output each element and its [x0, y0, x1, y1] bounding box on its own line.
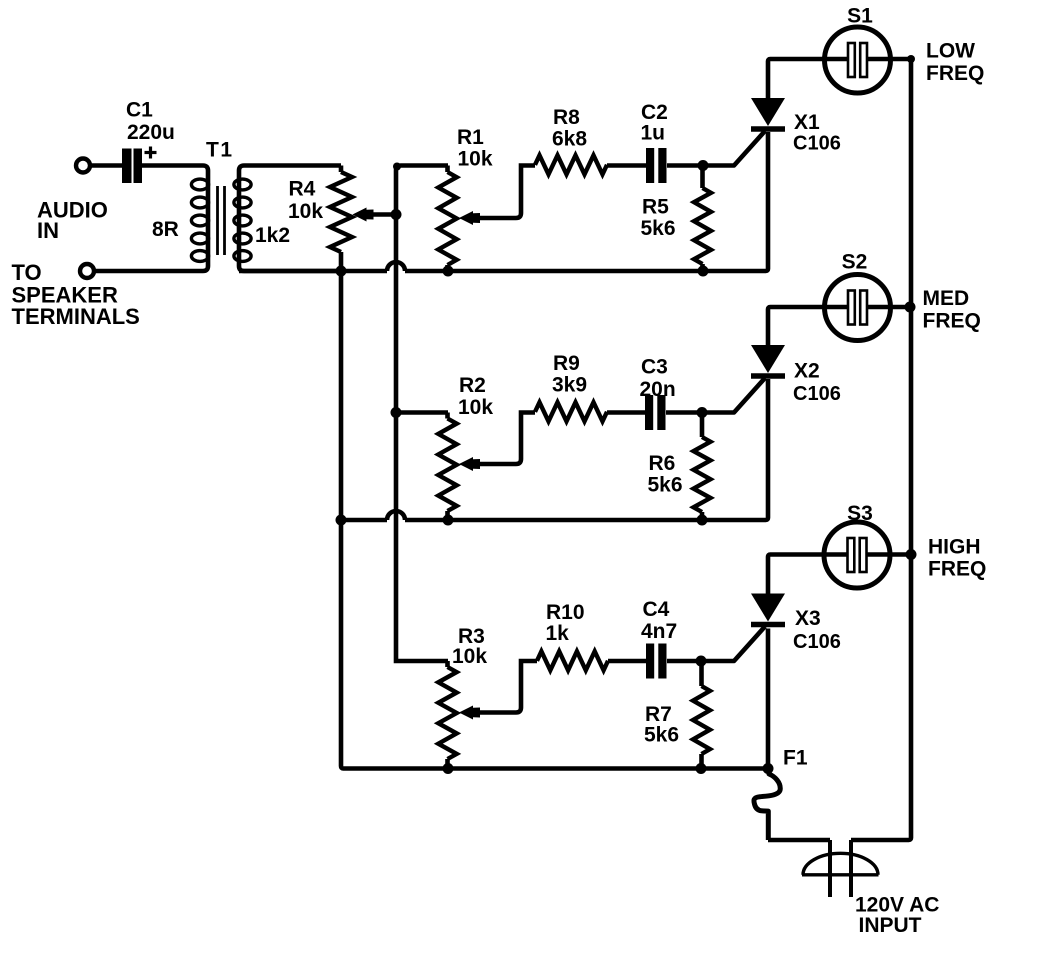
svg-text:FREQ: FREQ — [928, 558, 986, 581]
svg-text:TO: TO — [12, 260, 42, 285]
svg-text:C106: C106 — [793, 383, 841, 405]
capacitor C1 220u — [122, 149, 132, 184]
wire X3 anode to lamp S3 — [768, 555, 849, 594]
plug right prong — [849, 840, 853, 897]
wiper arrow R2 — [459, 457, 480, 471]
svg-text:C3: C3 — [641, 356, 668, 379]
svg-text:5k6: 5k6 — [648, 474, 683, 497]
wire lamp S2 to AC bus — [867, 305, 911, 310]
wire X2 anode to lamp S2 — [768, 307, 849, 345]
svg-text:10k: 10k — [452, 645, 487, 668]
svg-text:5k6: 5k6 — [644, 724, 679, 747]
wiper arrow R3 — [459, 706, 480, 720]
svg-text:TERMINALS: TERMINALS — [12, 304, 140, 329]
node: R6 bottom on rail — [697, 515, 708, 526]
gate wire X3 — [701, 627, 765, 662]
svg-text:T1: T1 — [206, 139, 234, 162]
svg-text:10k: 10k — [458, 148, 493, 171]
wire C1 to transformer primary — [94, 166, 209, 272]
svg-text:F1: F1 — [783, 747, 808, 770]
wire lamp S3 to AC bus — [867, 552, 912, 557]
svg-text:S3: S3 — [847, 502, 873, 525]
svg-text:220u: 220u — [127, 121, 175, 144]
svg-text:1k2: 1k2 — [255, 224, 290, 247]
svg-text:R8: R8 — [553, 106, 580, 129]
SCR X2 C106 — [751, 345, 785, 373]
wire lamp S1 to AC bus — [867, 57, 911, 62]
wire: signal bus (R4 wiper to R1/R2/R3 tops) — [396, 166, 448, 662]
svg-text:1u: 1u — [641, 122, 666, 145]
node: C4 / R7 / gate X3 — [696, 656, 707, 667]
terminal: speaker bottom — [80, 264, 94, 278]
svg-text:5k6: 5k6 — [641, 217, 676, 240]
transformer T1 secondary (1k2 winding) — [239, 166, 341, 272]
transformer T1 core — [216, 186, 219, 255]
svg-text:S2: S2 — [842, 251, 868, 274]
SCR X1 C106 — [751, 98, 785, 126]
wire R10 to C4 — [608, 659, 646, 664]
resistor R5 5k6 — [700, 166, 705, 189]
capacitor C3 20n — [645, 395, 653, 430]
potentiometer R1 10k — [445, 166, 450, 173]
node: ground bus ch2 — [336, 515, 347, 526]
wire: ground bus down left side — [341, 271, 768, 769]
svg-text:R2: R2 — [459, 374, 486, 397]
svg-text:C106: C106 — [793, 133, 841, 155]
svg-text:R1: R1 — [457, 126, 484, 149]
svg-text:MED: MED — [923, 287, 970, 310]
wire C2 to gate node — [667, 163, 703, 168]
node: R5 bottom on rail — [698, 266, 709, 277]
node: R2 bottom — [443, 515, 454, 526]
resistor R8 6k8 — [535, 155, 607, 174]
transformer T1 primary loops (8R winding) — [191, 179, 208, 190]
wire C4 to gate node — [667, 659, 701, 664]
resistor R9 3k9 — [535, 402, 607, 421]
wire R9 to C3 — [607, 410, 645, 415]
node: bus top corner — [907, 55, 915, 63]
svg-text:8R: 8R — [152, 218, 179, 241]
svg-text:IN: IN — [37, 218, 59, 243]
terminal: audio input top — [76, 159, 90, 173]
node: C2 / R5 / gate X1 — [698, 160, 709, 171]
svg-text:FREQ: FREQ — [923, 310, 981, 333]
svg-text:10k: 10k — [458, 396, 493, 419]
channel 1 rail — [239, 269, 387, 274]
wire C3 to gate node — [666, 410, 702, 415]
wire hop over bus (ch1 rail) — [387, 262, 405, 271]
potentiometer R3 10k — [445, 661, 450, 667]
SCR X3 C106 — [751, 594, 785, 622]
potentiometer R4 10k — [339, 166, 344, 173]
potentiometer R2 10k — [445, 413, 450, 419]
svg-text:R4: R4 — [289, 178, 316, 201]
gate wire X2 — [702, 378, 765, 413]
wire: bus branch to R2 — [396, 410, 448, 415]
svg-text:R6: R6 — [649, 452, 676, 475]
wire X1 anode to lamp S1 — [768, 59, 848, 98]
plug left prong — [828, 840, 832, 897]
capacitor C4 4n7 — [646, 644, 654, 679]
svg-text:R9: R9 — [553, 352, 580, 375]
wire R8 to C2 — [607, 163, 646, 168]
node: S2 on bus — [905, 302, 916, 313]
node: F1 junction — [763, 763, 774, 774]
svg-text:20n: 20n — [640, 378, 676, 401]
lamp S3 — [824, 522, 890, 588]
wire X3 cathode to F1 node — [766, 629, 771, 769]
node: bus top corner — [393, 163, 401, 171]
node: bus to R2 — [391, 407, 402, 418]
wire fuse to plug — [768, 838, 830, 843]
resistor R7 5k6 — [699, 661, 704, 686]
svg-text:C1: C1 — [126, 99, 153, 122]
svg-text:X3: X3 — [795, 607, 821, 630]
svg-text:INPUT: INPUT — [859, 914, 922, 937]
fuse F1 — [754, 769, 780, 841]
svg-text:FREQ: FREQ — [926, 62, 984, 85]
svg-text:HIGH: HIGH — [928, 536, 981, 559]
wire R3 wiper to R10 — [476, 661, 537, 713]
svg-text:X1: X1 — [794, 111, 820, 134]
svg-text:LOW: LOW — [926, 40, 975, 63]
lamp S1 — [825, 27, 891, 93]
wiper arrow R1 — [459, 211, 480, 225]
svg-text:R5: R5 — [642, 196, 669, 219]
wire hop over bus (ch2 rail) — [387, 511, 405, 520]
node: R4 wiper / signal bus junction — [391, 209, 402, 220]
wire R2 wiper to R9 — [476, 413, 535, 465]
wire terminal to C1 — [90, 163, 123, 168]
svg-text:1k: 1k — [546, 622, 570, 645]
capacitor C2 1u — [646, 148, 654, 183]
channel 2 rail — [341, 518, 387, 523]
svg-text:X2: X2 — [794, 360, 820, 383]
svg-text:6k8: 6k8 — [552, 128, 587, 151]
node: S3 on bus — [906, 549, 917, 560]
svg-text:4n7: 4n7 — [641, 620, 677, 643]
AC bus right side — [851, 59, 911, 840]
node: R7 bottom on rail — [696, 763, 707, 774]
svg-text:R10: R10 — [546, 601, 585, 624]
svg-text:C4: C4 — [643, 598, 670, 621]
plug dome — [803, 853, 878, 875]
wiper arrow R4 — [353, 208, 374, 222]
svg-text:10k: 10k — [288, 200, 323, 223]
lamp S2 — [825, 275, 891, 341]
gate wire X1 — [703, 131, 765, 166]
svg-text:S1: S1 — [847, 5, 873, 28]
node: R1 bottom — [443, 266, 454, 277]
wire R1 wiper to R8 — [476, 166, 535, 219]
svg-text:3k9: 3k9 — [552, 374, 587, 397]
resistor R6 5k6 — [700, 413, 705, 438]
resistor R10 1k — [537, 651, 608, 670]
node: R4 bottom / ground bus — [336, 266, 347, 277]
node: R3 bottom — [443, 763, 454, 774]
plug base line — [802, 873, 879, 876]
svg-text:C106: C106 — [793, 631, 841, 653]
node: C3 / R6 / gate X2 — [697, 407, 708, 418]
